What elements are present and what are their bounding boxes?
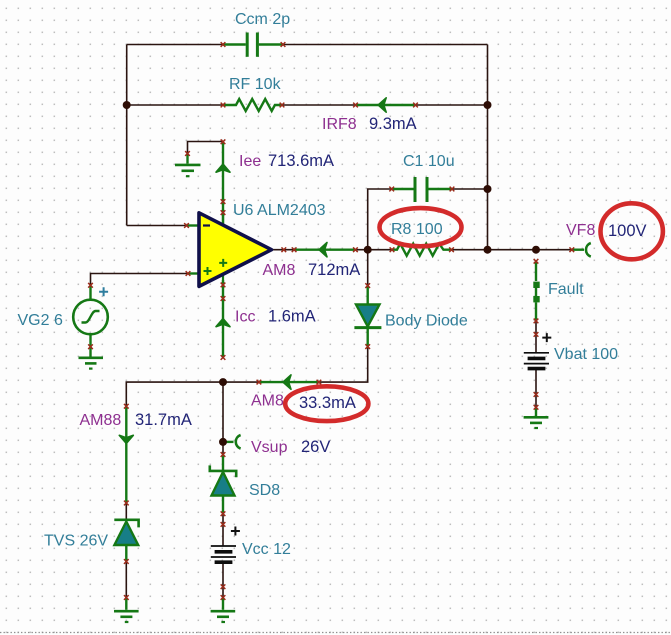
pin x-mark AM8 right (353, 247, 358, 252)
wire SD8 to Vcc (222, 514, 224, 546)
svg-text:Vcc 12: Vcc 12 (242, 541, 291, 558)
pin x-mark AM8b left (257, 380, 262, 385)
svg-text:Vsup: Vsup (251, 439, 288, 456)
pin x-mark AM88 bottom / TVS top (124, 501, 129, 506)
wire Vcc to ground (222, 563, 224, 598)
pin x-mark Fault bottom (534, 319, 539, 324)
op-amp U6 (199, 211, 272, 286)
ammeter Icc (216, 280, 230, 358)
wire C1 right (452, 188, 488, 190)
pin x-mark TVS gnd stub (124, 595, 129, 600)
pin x-mark Ccm left (221, 42, 226, 47)
svg-text:Vbat 100: Vbat 100 (554, 346, 618, 363)
svg-text:26V: 26V (301, 438, 330, 456)
red ellipse R8 100 (380, 208, 462, 246)
pin x-mark opamp V+ pin (221, 210, 226, 215)
wire inverting input (127, 225, 187, 227)
pin x-mark opamp inv pin (184, 223, 189, 228)
ammeter AM8 (33.3mA) (259, 375, 319, 389)
svg-text:VG2 6: VG2 6 (18, 312, 63, 329)
pin x-mark Icc bottom (221, 355, 226, 360)
pin x-mark RF right (280, 103, 285, 108)
pin x-mark Vcc top (221, 522, 226, 527)
pin x-mark AM88 top (124, 404, 129, 409)
ground (Vcc) (211, 598, 236, 623)
wire RF to IRF8 (282, 104, 356, 106)
pin x-mark VG2 top (88, 283, 93, 288)
pin x-mark Vbat top (534, 332, 539, 337)
wire top-left vertical feedback (126, 45, 128, 226)
pin x-mark SD8 top (221, 452, 226, 457)
svg-text:C1 10u: C1 10u (403, 153, 455, 170)
ground (TVS) (114, 598, 139, 623)
pin x-mark IRF8 left (353, 103, 358, 108)
wire C1 left branch (368, 189, 392, 250)
svg-text:100V: 100V (608, 222, 647, 240)
svg-text:AM8: AM8 (251, 393, 284, 410)
capacitor C1 10u (392, 177, 452, 202)
svg-text:31.7mA: 31.7mA (135, 411, 192, 429)
pin x-mark Iee bottom (221, 199, 226, 204)
svg-text:U6 ALM2403: U6 ALM2403 (233, 202, 326, 219)
node right top (484, 101, 492, 109)
switch Fault (533, 261, 539, 321)
pin x-mark AM8 left (292, 247, 297, 252)
resistor RF 10k (223, 99, 282, 111)
wire TVS to ground (125, 562, 127, 598)
node supply (219, 378, 227, 386)
plus mark Vcc (231, 527, 240, 536)
pin x-mark Iee top (221, 139, 226, 144)
wire Vbat to ground (535, 370, 537, 408)
node output left (364, 246, 372, 254)
wire noninverting input (91, 274, 189, 286)
node C1 right (484, 185, 492, 193)
voltage pin VF8 (572, 243, 591, 257)
svg-text:VF8: VF8 (566, 222, 595, 239)
pin x-mark opamp out pin (281, 247, 286, 252)
svg-text:Body Diode: Body Diode (385, 313, 468, 330)
wire AM8 to supply node (223, 381, 259, 383)
svg-text:9.3mA: 9.3mA (369, 115, 417, 133)
svg-text:33.3mA: 33.3mA (299, 394, 356, 412)
node feedback left (123, 101, 131, 109)
page boundary dotted line (0, 632, 671, 634)
ammeter Iee (216, 142, 230, 226)
wire top to Ccm (127, 44, 223, 46)
wire AM88 to TVS (125, 503, 127, 520)
pin x-mark C1 left (389, 187, 394, 192)
node Vsup tap (219, 438, 227, 446)
pin x-mark Ccm right (281, 42, 286, 47)
pin x-mark TVS bottom (124, 559, 129, 564)
pin x-mark opamp V- pin (221, 283, 226, 288)
svg-text:1.6mA: 1.6mA (268, 308, 316, 326)
resistor R8 100 (392, 244, 452, 256)
svg-text:AM8: AM8 (263, 262, 296, 279)
wire fault to Vbat (535, 321, 537, 353)
pin x-mark Vcc bottom (221, 584, 226, 589)
pin x-mark VG2 bottom (88, 344, 93, 349)
wire body diode to AM8 (319, 347, 368, 383)
svg-text:Ccm 2p: Ccm 2p (235, 11, 290, 28)
svg-text:SD8: SD8 (249, 482, 280, 499)
pin x-mark BodyDiode bottom (365, 344, 370, 349)
plus mark VG2 (99, 287, 108, 296)
pin x-mark AM8b right (317, 380, 322, 385)
ground (Vbat) (524, 407, 549, 428)
wire node to RF (127, 104, 223, 106)
red ellipse 33.3mA (285, 386, 368, 421)
ammeter AM88 (119, 406, 133, 503)
wire node to AM88 (126, 382, 223, 406)
ammeter AM8 output (294, 243, 355, 257)
wire supply node to Vsup node (222, 382, 224, 454)
red ellipse 100V (601, 203, 663, 259)
diode Body Diode (354, 286, 381, 347)
pin x-mark Fault top (534, 259, 539, 264)
svg-text:712mA: 712mA (308, 261, 360, 279)
plus mark Vbat (542, 333, 551, 342)
wire R8 to VF8 (452, 249, 572, 251)
pin x-mark VF8 stub (569, 247, 574, 252)
pin x-mark RF left (221, 103, 226, 108)
svg-text:TVS 26V: TVS 26V (44, 533, 108, 550)
svg-text:713.6mA: 713.6mA (268, 152, 334, 170)
source VG2 (73, 285, 108, 346)
svg-text:R8 100: R8 100 (391, 221, 443, 238)
diode SD8 (210, 455, 236, 514)
pin x-mark IRF8 right (413, 103, 418, 108)
svg-text:Icc: Icc (235, 309, 255, 326)
battery Vcc 12 (211, 546, 236, 562)
wire IRF8 to right column (416, 104, 488, 106)
svg-text:RF 10k: RF 10k (229, 76, 282, 93)
pin x-mark Vbat bottom (534, 392, 539, 397)
wire opamp output (272, 249, 295, 251)
pin x-mark BodyDiode top (365, 283, 370, 288)
pin x-mark Vbat gnd stub (534, 405, 539, 410)
wire right vertical column (487, 45, 489, 251)
wire node to body diode (367, 250, 369, 286)
svg-text:Fault: Fault (548, 281, 584, 298)
opamp input pin stubs (187, 224, 200, 226)
pin x-mark SD8 bottom (221, 511, 226, 516)
node output right (484, 246, 492, 254)
pin x-mark Vcc gnd stub (221, 595, 226, 600)
pin x-mark opamp noninv pin (186, 271, 191, 276)
pin x-mark gnd Iee stub (185, 151, 190, 156)
svg-text:AM88: AM88 (80, 412, 122, 429)
diode TVS 26V (114, 520, 138, 562)
svg-text:Iee: Iee (239, 153, 261, 170)
pin x-mark R8 right (449, 247, 454, 252)
pin x-mark R8 left (390, 247, 395, 252)
voltage pin Vsup (223, 435, 241, 449)
ground (VG2) (79, 347, 104, 369)
wire Ccm to right corner (283, 44, 488, 46)
pin x-mark C1 right (450, 187, 455, 192)
svg-text:IRF8: IRF8 (322, 116, 357, 133)
pin x-mark Icc top (221, 296, 226, 301)
battery Vbat 100 (524, 353, 549, 369)
ground (Iee) (175, 154, 201, 177)
wire AM8 to node (355, 249, 392, 251)
capacitor Ccm 2p (223, 33, 283, 57)
node fault tap (532, 246, 540, 254)
ammeter IRF8 (356, 98, 416, 112)
wire Iee ground link (188, 142, 224, 154)
